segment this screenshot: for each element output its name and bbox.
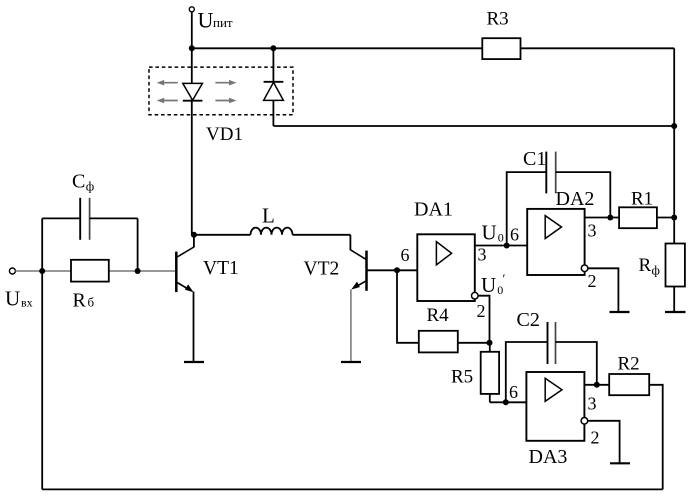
LED of VD1 [183, 83, 203, 100]
svg-text:2: 2 [588, 271, 597, 291]
svg-text:VT1: VT1 [203, 258, 239, 279]
wire Uпит terminal to top rail [191, 13, 193, 49]
wire input (gray) [16, 270, 177, 272]
wire Cф left riser [41, 218, 43, 271]
node junction input / Cф left [39, 268, 45, 274]
svg-text:6: 6 [510, 225, 519, 245]
wire left feedback riser [41, 271, 43, 489]
wire R1 to right rail [657, 217, 674, 219]
node junction base/R4 branch [394, 267, 400, 273]
wire DA3 output pin3 [584, 384, 609, 386]
svg-text:R: R [73, 290, 87, 312]
inverting output circle DA2 [581, 265, 588, 272]
svg-text:пит: пит [213, 15, 233, 30]
svg-text:вх: вх [21, 296, 33, 310]
wire DA1 pin2 to R4 node [478, 296, 489, 343]
wire R2 to bottom feedback [649, 385, 663, 490]
svg-text:VT2: VT2 [304, 259, 340, 280]
node junction DA1 out / C1 / DA2 in [504, 243, 510, 249]
svg-text:R1: R1 [631, 189, 653, 210]
inverting output circle DA3 [581, 418, 588, 425]
wire top rail y=48 [192, 47, 674, 49]
wire DA2 output pin3 [585, 217, 620, 219]
svg-text:R2: R2 [618, 354, 640, 375]
node junction R1 / right rail [671, 215, 677, 221]
svg-text:U: U [198, 8, 214, 33]
svg-text:VD1: VD1 [206, 124, 243, 145]
resistor R3 [482, 38, 520, 59]
inverting output circle DA1 [472, 292, 479, 299]
terminal Uпит [189, 7, 194, 12]
op-amp DA2 [527, 209, 584, 275]
wire Cф right riser [137, 218, 139, 271]
svg-text:2: 2 [477, 301, 486, 321]
resistor R2 [609, 374, 649, 395]
svg-text:ф: ф [86, 179, 94, 194]
wire R5 bottom to DA3 input [490, 401, 527, 403]
capacitor C1 loop [507, 172, 547, 245]
transistor VT2 [365, 251, 368, 291]
resistor R4 [419, 331, 458, 353]
svg-text:C: C [72, 171, 85, 193]
wire bottom feedback rail [42, 488, 663, 490]
svg-text:C1: C1 [523, 148, 546, 170]
svg-text:3: 3 [588, 394, 597, 414]
arrow left lower [157, 98, 178, 104]
svg-text:R5: R5 [451, 367, 473, 388]
svg-text:R4: R4 [427, 305, 450, 326]
wire photodiode return to right rail [273, 125, 674, 127]
resistor R1 [619, 207, 657, 228]
node junction top rail / photodiode branch [270, 45, 276, 51]
optocoupler VD1 dashed box [149, 67, 293, 115]
node junction DA3 out / C2 right [594, 382, 600, 388]
ground DA3 pin2 [610, 462, 630, 464]
inductor L [194, 234, 251, 236]
svg-text:U: U [482, 221, 497, 245]
svg-text:L: L [262, 204, 275, 228]
svg-text:R3: R3 [487, 9, 509, 30]
arrow right lower [215, 98, 236, 104]
svg-text:б: б [88, 295, 95, 310]
terminal Uвх [9, 268, 15, 274]
transistor VT1 [175, 252, 178, 293]
wire DA1 output pin3 [475, 245, 507, 247]
node junction Rб right / Cф right [135, 268, 141, 274]
wire VT1 emitter down [193, 292, 195, 363]
ground DA2 pin2 [610, 311, 630, 313]
ground Rф [665, 311, 686, 313]
svg-text:3: 3 [478, 245, 487, 265]
svg-text:C2: C2 [517, 309, 540, 331]
resistor Rб [71, 260, 109, 282]
wire right rail x=674 [673, 48, 675, 312]
node junction right rail / photodiode return [671, 123, 677, 129]
capacitor C2 loop [506, 342, 548, 402]
svg-text:ф: ф [652, 263, 660, 278]
wire DA2 input [507, 245, 528, 247]
wire DA2 pin2 to ground [588, 268, 619, 312]
svg-text:6: 6 [401, 245, 410, 265]
node junction top rail / LED branch [189, 45, 195, 51]
wire VT2 emitter down (gray) [350, 290, 352, 363]
svg-text:6: 6 [509, 382, 518, 402]
capacitor Cф [42, 217, 80, 219]
node collector junction VT1 [191, 232, 197, 238]
svg-text:0: 0 [498, 231, 504, 245]
wire VT2 base to DA1 [368, 269, 418, 271]
wire node down through R5 [489, 343, 491, 403]
svg-text:U: U [481, 273, 496, 297]
resistor Rф [666, 244, 685, 287]
svg-text:R: R [639, 255, 652, 276]
svg-text:′: ′ [503, 271, 506, 286]
wire R4 right to node [458, 342, 490, 344]
ground VT2 [341, 361, 361, 363]
svg-text:U: U [5, 287, 20, 311]
wire branch down to R4 [397, 270, 419, 343]
wire LED branch [191, 48, 193, 235]
photodiode of VD1 [272, 48, 274, 126]
node junction DA2 out / C1 right [607, 215, 613, 221]
arrow left upper [157, 80, 178, 86]
resistor R5 [481, 352, 499, 394]
wire DA3 pin2 to ground [588, 421, 620, 464]
op-amp DA1 [417, 234, 475, 301]
svg-text:DA2: DA2 [556, 188, 595, 210]
node junction R4 / pin2 / R5 [487, 340, 493, 346]
svg-text:2: 2 [591, 428, 600, 448]
svg-text:DA1: DA1 [414, 199, 453, 221]
ground VT1 [184, 361, 204, 363]
node junction R5 / C2 / DA3 input [503, 399, 509, 405]
svg-text:3: 3 [588, 221, 597, 241]
op-amp DA3 [526, 372, 584, 441]
svg-text:DA3: DA3 [529, 446, 568, 468]
arrow right upper [215, 80, 236, 86]
